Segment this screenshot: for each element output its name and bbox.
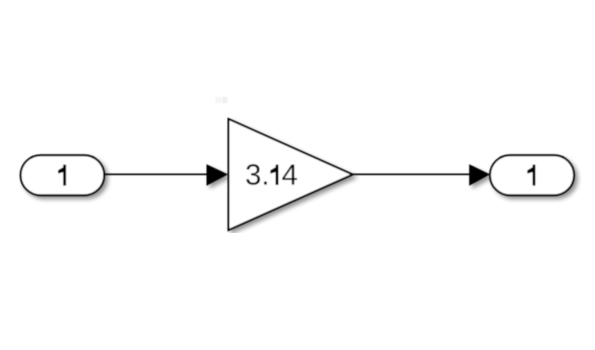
inport block In1 [21, 155, 105, 195]
gain triangle body [229, 119, 353, 230]
outport block Out1 [490, 155, 574, 195]
port number label 1 [527, 165, 535, 186]
outport body [490, 155, 574, 195]
gain value label 3.14 [246, 164, 260, 185]
inport body [21, 155, 105, 195]
wire from gain to Out1 [353, 173, 472, 175]
port number label 1 [58, 165, 66, 186]
faint watermark mark above gain block [216, 97, 227, 103]
wire from In1 to gain [104, 173, 210, 175]
gain block value 3.14 [229, 119, 353, 230]
arrowhead at gain input [207, 164, 229, 186]
arrowhead at Out1 input [469, 164, 490, 186]
